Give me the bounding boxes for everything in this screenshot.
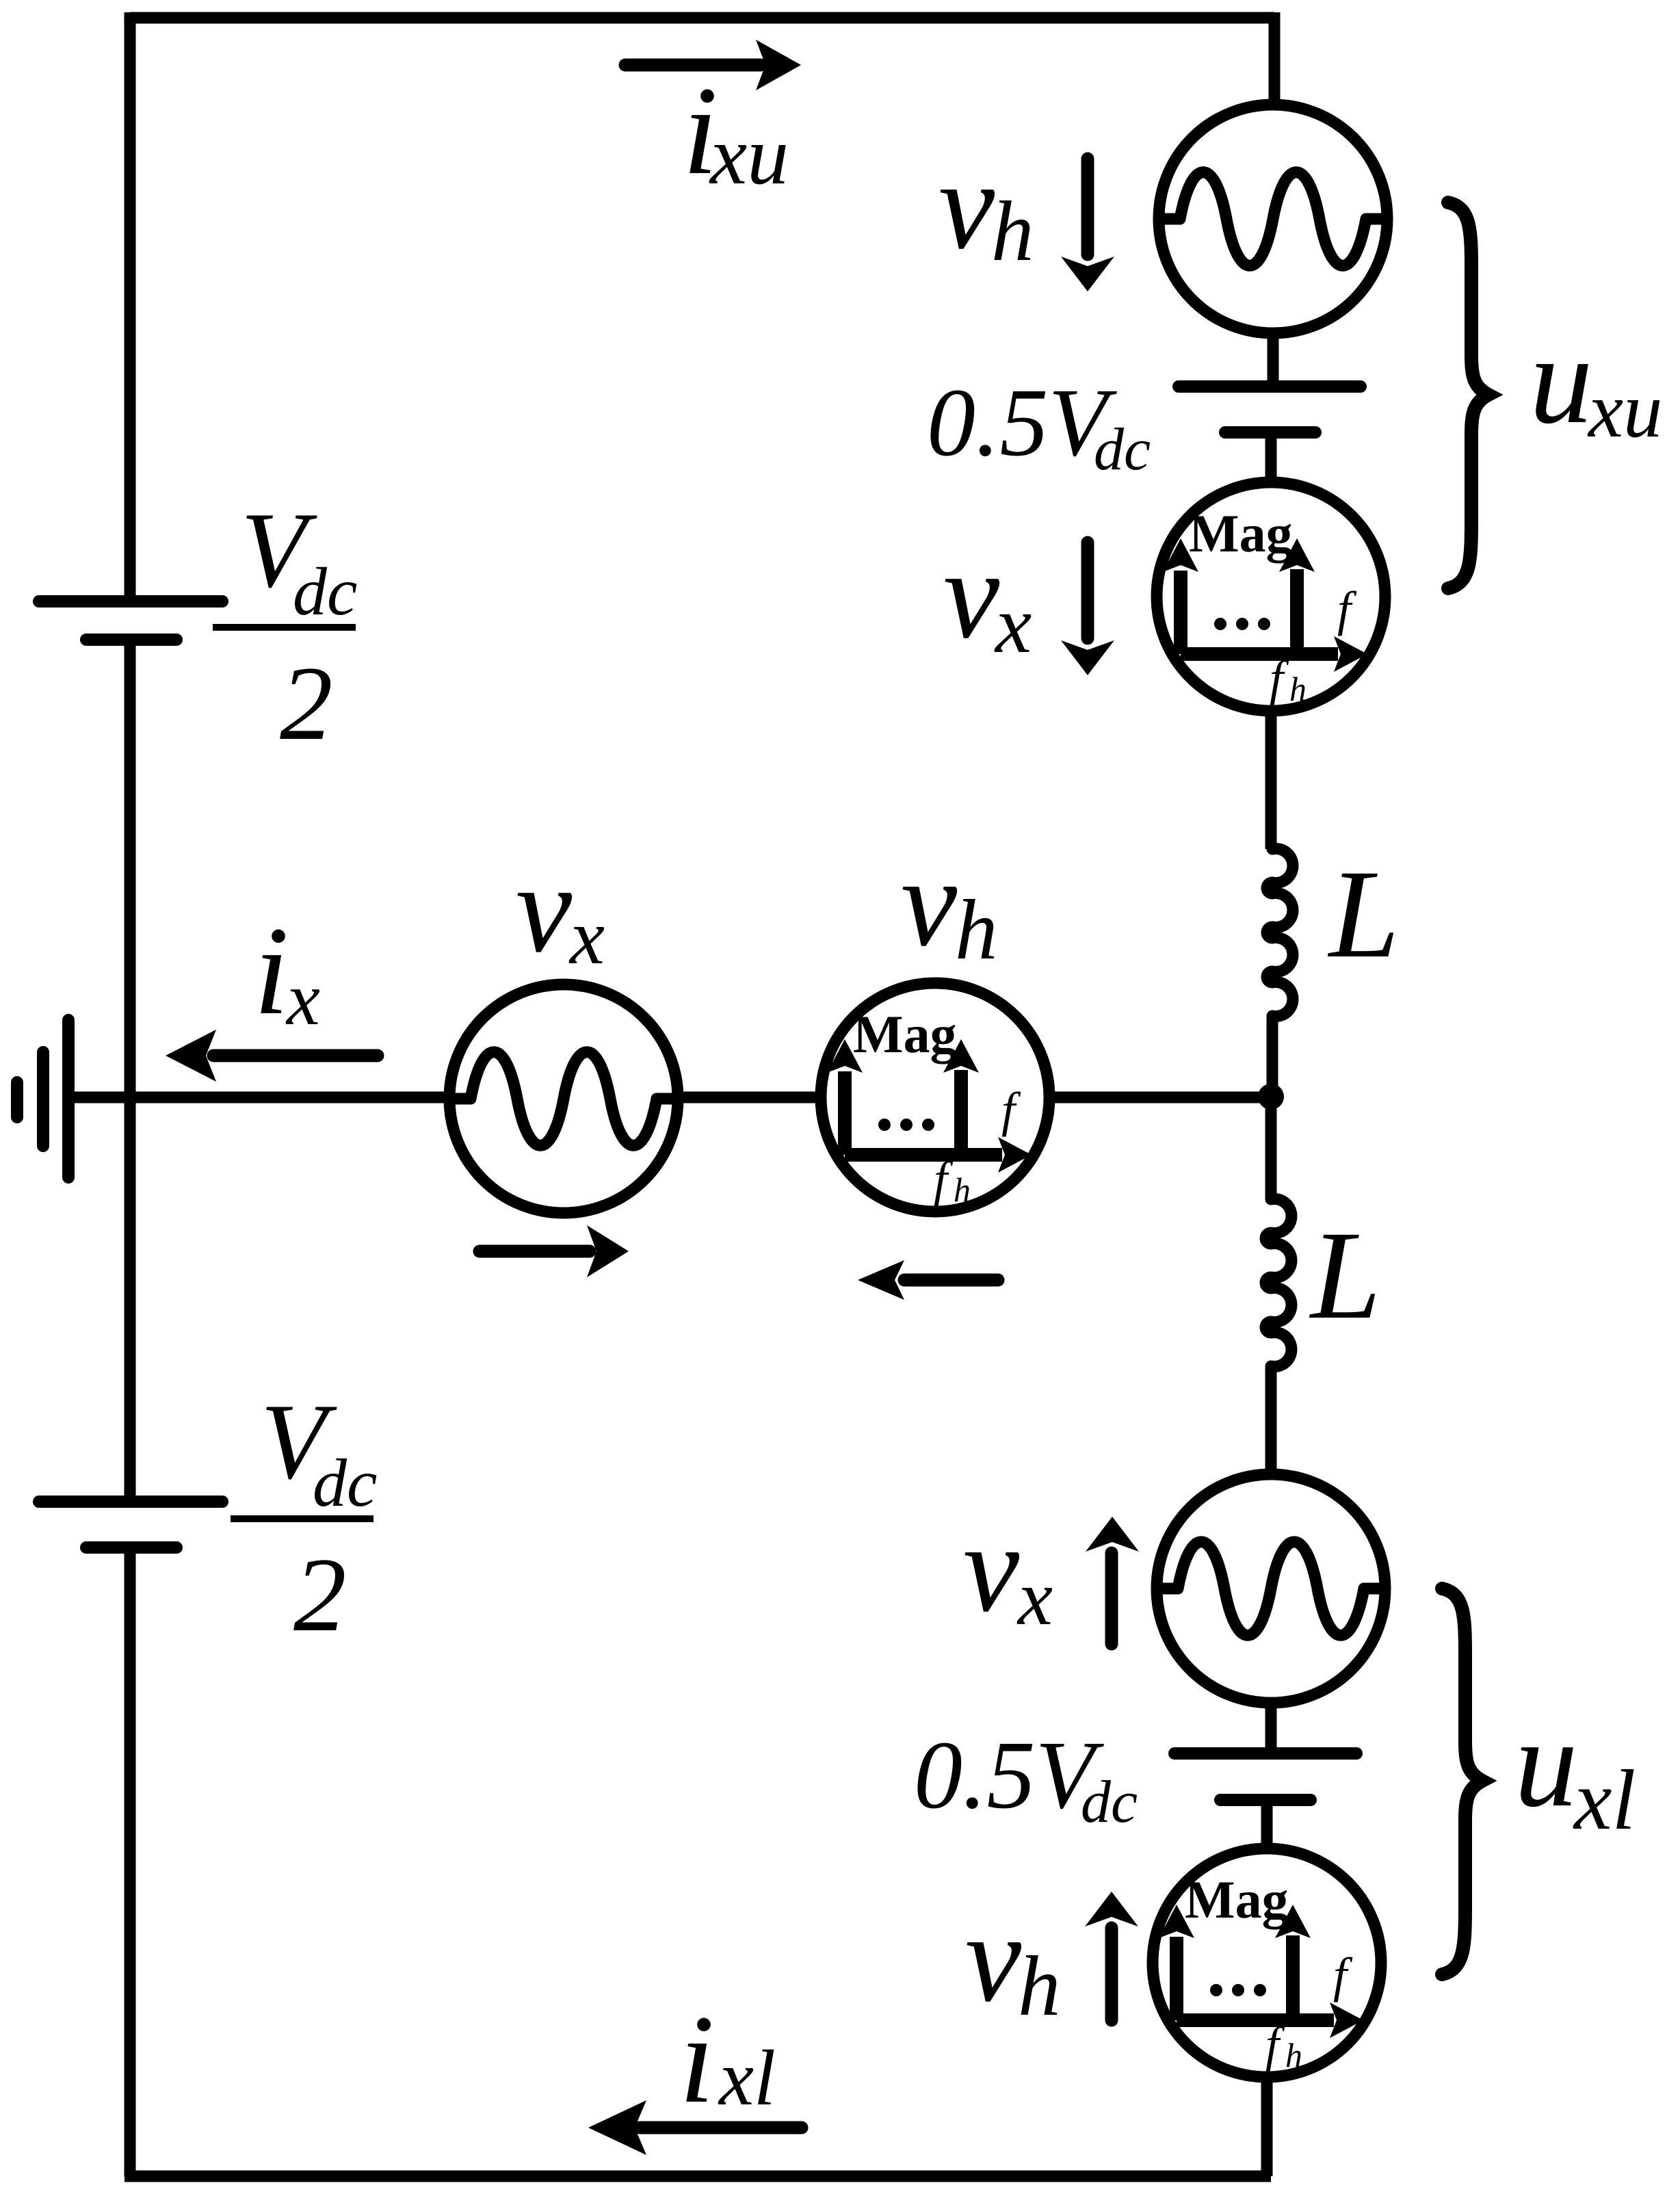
polarity arrow of vx bottom (up): [1086, 1517, 1139, 1644]
wire: middle branch segment ground to vx source: [68, 1092, 449, 1103]
wire: top bus: [130, 12, 1274, 24]
wire: inductor L2 to vx bottom source: [1265, 1366, 1277, 1478]
label vx middle: [516, 839, 605, 980]
current arrow i_xu: [625, 40, 801, 90]
svg-text:u: u: [1530, 310, 1593, 450]
svg-text:2: 2: [293, 1536, 347, 1654]
wire: stub vx bottom to battery lower arm: [1265, 1701, 1277, 1750]
wire: stub battery to spectrum top arm: [1265, 435, 1277, 486]
source vx middle (sine): [449, 984, 678, 1213]
value label Vdc/2 upper: [213, 491, 357, 762]
svg-text:v: v: [939, 135, 995, 276]
label vh bottom: [965, 1888, 1061, 2034]
label u_xl: [1514, 1693, 1636, 1848]
label vx top: [943, 525, 1032, 670]
brace for u_xl: [1442, 1589, 1482, 1974]
value label Vdc/2 lower: [231, 1382, 377, 1654]
svg-text:xu: xu: [709, 109, 789, 202]
polarity arrow of vh top (down): [1061, 159, 1114, 291]
label i_xl: [679, 1989, 776, 2130]
svg-text:u: u: [1514, 1693, 1578, 1833]
wire: bottom bus: [124, 2171, 1271, 2182]
svg-text:v: v: [963, 1498, 1020, 1638]
wire: left rail middle segment: [124, 646, 136, 1496]
svg-text:i: i: [254, 901, 289, 1041]
svg-text:dc: dc: [313, 1445, 377, 1521]
inductor L1 coil: [1267, 849, 1293, 1017]
wire: stub battery to spectrum lower arm: [1261, 1803, 1273, 1854]
wire: middle branch segment to junction: [1049, 1092, 1271, 1103]
svg-text:i: i: [679, 1989, 714, 2130]
svg-text:v: v: [965, 1888, 1022, 2028]
svg-text:x: x: [568, 893, 605, 980]
svg-text:dc: dc: [1094, 417, 1151, 483]
source vx bottom (sine): [1157, 1474, 1385, 1703]
source vh bottom (spectrum): [1153, 1849, 1381, 2077]
wire: left rail upper segment: [124, 12, 136, 595]
wire: stub spectrum to inductor L1: [1265, 711, 1277, 849]
wire: inductor L1 to junction: [1267, 1016, 1278, 1097]
wire: middle branch segment between sources: [678, 1092, 821, 1103]
current arrow i_xl: [588, 2100, 802, 2155]
ground symbol: [17, 1020, 68, 1177]
label i_xu: [683, 61, 789, 202]
battery B1 Vdc/2 upper: [39, 601, 222, 640]
svg-text:h: h: [1018, 1940, 1061, 2034]
wire: junction to inductor L2: [1265, 1097, 1277, 1199]
svg-text:0.5V: 0.5V: [927, 368, 1118, 476]
node junction dot: [1258, 1084, 1284, 1110]
polarity arrow of vx middle (right): [480, 1225, 629, 1277]
polarity arrow of vx top (down): [1061, 543, 1114, 675]
label vh top: [939, 135, 1034, 279]
source vh top (sine): [1159, 105, 1387, 333]
svg-text:h: h: [955, 883, 998, 978]
label vh middle: [901, 833, 998, 978]
svg-text:v: v: [943, 525, 1000, 665]
polarity arrow of vh bottom (up): [1085, 1892, 1138, 2020]
svg-text:dc: dc: [293, 553, 357, 629]
battery B2 Vdc/2 lower: [39, 1502, 222, 1547]
svg-text:L: L: [1327, 844, 1400, 984]
svg-text:2: 2: [280, 644, 333, 762]
svg-text:xl: xl: [718, 2035, 776, 2121]
battery B4 0.5Vdc lower: [1174, 1753, 1356, 1800]
svg-text:x: x: [285, 957, 320, 1041]
svg-text:v: v: [901, 833, 958, 973]
battery B3 0.5Vdc upper: [1179, 387, 1361, 432]
source vh middle (spectrum): [821, 983, 1049, 1212]
svg-text:h: h: [991, 185, 1034, 279]
svg-text:xl: xl: [1573, 1753, 1636, 1848]
value label 0.5Vdc upper: [927, 368, 1151, 483]
svg-text:dc: dc: [1081, 1769, 1138, 1836]
source vx top (spectrum): [1157, 482, 1385, 711]
svg-text:L: L: [1309, 1205, 1381, 1346]
inductor L2 coil: [1265, 1199, 1291, 1367]
svg-text:x: x: [994, 579, 1032, 670]
wire: stub spectrum bottom to bottom bus: [1261, 2077, 1273, 2176]
svg-text:xu: xu: [1587, 367, 1663, 454]
value label 0.5Vdc lower: [914, 1721, 1138, 1836]
label i_x: [254, 901, 320, 1041]
label u_xu: [1530, 310, 1663, 454]
svg-text:v: v: [516, 839, 573, 979]
polarity arrow of vh middle (left): [858, 1260, 998, 1300]
wire: stub sine to battery top arm: [1268, 332, 1279, 383]
svg-text:x: x: [1016, 1554, 1053, 1641]
svg-text:0.5V: 0.5V: [914, 1721, 1105, 1829]
brace for u_xu: [1448, 203, 1488, 588]
wire: left rail lower segment: [124, 1554, 136, 2176]
current arrow i_x: [166, 1030, 378, 1082]
wire: right branch top drop: [1269, 12, 1281, 106]
label vx bottom: [963, 1498, 1053, 1641]
